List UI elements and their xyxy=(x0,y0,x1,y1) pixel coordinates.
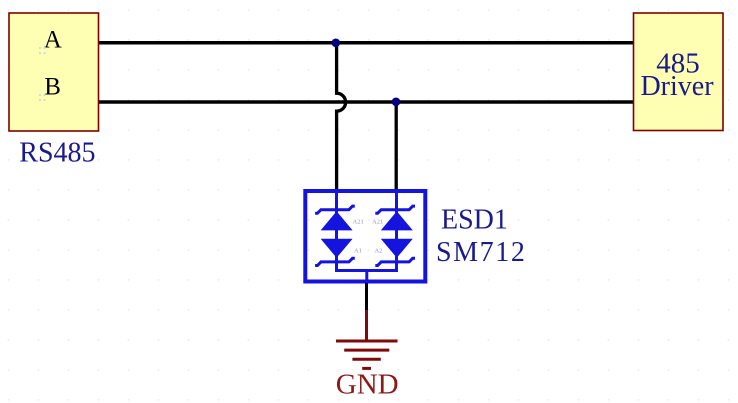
junction node on wire A xyxy=(332,39,341,48)
svg-text:B: B xyxy=(44,74,61,101)
TVS diode pair D2 upper triangle xyxy=(381,211,413,230)
wire A (top horizontal net) xyxy=(98,41,634,45)
TVS diode pair D2 lower triangle xyxy=(381,239,413,258)
svg-text:A21: A21 xyxy=(353,219,364,226)
svg-text:A1: A1 xyxy=(354,248,362,255)
TVS diode pair D1 lead (left vertical inside ESD1) xyxy=(335,193,338,271)
hidden pin designator mark for pin B xyxy=(39,94,46,101)
TVS diode pair D2 lead (right vertical inside ESD1) xyxy=(395,193,398,271)
svg-text:RS485: RS485 xyxy=(19,138,95,169)
wire ESD1 common pin to ground xyxy=(365,283,368,311)
ground symbol stem xyxy=(365,310,368,340)
TVS diode pair D2 top zener bar xyxy=(375,206,415,213)
svg-text:A21: A21 xyxy=(372,219,383,226)
wire from node B down to ESD1 pin xyxy=(395,102,398,191)
svg-text:A2: A2 xyxy=(375,248,383,255)
ground symbol bar 1 xyxy=(336,340,398,343)
TVS diode pair D1 top zener bar xyxy=(315,206,355,213)
ESD1 component body (SM712 TVS array box) xyxy=(305,191,425,282)
TVS diode pair D2 bottom zener bar xyxy=(375,258,415,265)
ESD1 internal common connector xyxy=(337,269,397,281)
wire B (bottom horizontal net) xyxy=(98,100,634,104)
ground symbol bar 2 xyxy=(344,349,389,352)
TVS diode pair D1 lower triangle xyxy=(321,239,353,258)
485 Driver box xyxy=(634,13,724,131)
hidden pin designator mark for pin A xyxy=(39,47,46,54)
junction node on wire B xyxy=(392,98,401,107)
wire from node A down to ESD1 pin (with hop over wire B) xyxy=(337,43,346,191)
RS485 connector box xyxy=(9,13,99,131)
svg-text:ESD1: ESD1 xyxy=(441,205,508,236)
ground symbol bar 3 xyxy=(352,358,380,361)
svg-text:A: A xyxy=(44,27,62,54)
svg-text:SM712: SM712 xyxy=(436,237,526,268)
TVS diode pair D1 bottom zener bar xyxy=(315,258,355,265)
svg-text:GND: GND xyxy=(336,369,399,401)
svg-text:Driver: Driver xyxy=(640,71,714,102)
TVS diode pair D1 upper triangle xyxy=(321,211,353,230)
ground symbol bar 4 xyxy=(362,367,371,370)
